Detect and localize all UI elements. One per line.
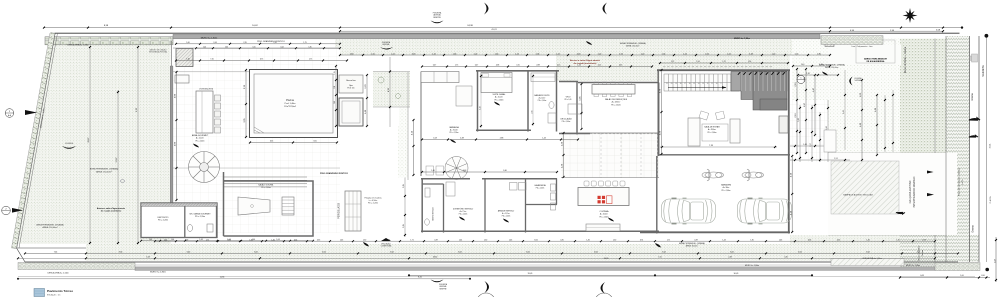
svg-text:3,74: 3,74 bbox=[386, 239, 389, 241]
boundary wall muro top bbox=[173, 34, 820, 38]
svg-text:4,35: 4,35 bbox=[317, 239, 320, 241]
bottom pebble band left bbox=[18, 263, 135, 270]
svg-text:A = 9,10m²: A = 9,10m² bbox=[450, 129, 459, 132]
vivo room east wall bbox=[576, 82, 578, 135]
bottom lawn band bbox=[86, 244, 900, 261]
patio paving around pool deck bbox=[173, 40, 335, 73]
svg-text:2,88: 2,88 bbox=[536, 65, 539, 67]
svg-text:COZINHA: COZINHA bbox=[600, 210, 610, 213]
svg-text:4,39: 4,39 bbox=[694, 239, 697, 241]
svg-text:1,43: 1,43 bbox=[843, 110, 845, 113]
svg-text:PISO GRANITADO RÚSTICO: PISO GRANITADO RÚSTICO bbox=[320, 172, 348, 175]
svg-text:6,56: 6,56 bbox=[534, 239, 537, 241]
service bathroom wall bbox=[443, 184, 445, 233]
svg-text:9,56: 9,56 bbox=[119, 252, 123, 254]
varanda chairs bbox=[426, 166, 434, 175]
svg-text:1,22: 1,22 bbox=[772, 53, 776, 55]
svg-text:WC / ÁREA GOURMET: WC / ÁREA GOURMET bbox=[189, 213, 211, 216]
svg-text:Acesso a caixa d'água através: Acesso a caixa d'água através bbox=[570, 59, 601, 62]
vertical dim right of pool bbox=[366, 75, 368, 126]
svg-text:1,56: 1,56 bbox=[705, 53, 709, 55]
living interior dim bbox=[660, 146, 777, 148]
svg-text:1,35: 1,35 bbox=[308, 46, 311, 48]
svg-text:2,88: 2,88 bbox=[500, 138, 504, 140]
pool bottom dim bbox=[250, 142, 337, 144]
svg-text:de escada marinheiro: de escada marinheiro bbox=[101, 211, 122, 213]
stair direction arrow bbox=[668, 87, 726, 89]
svg-text:17: 17 bbox=[684, 83, 686, 85]
motorcycle 1 bbox=[702, 169, 724, 181]
svg-text:ESCALA 1 : 45: ESCALA 1 : 45 bbox=[47, 294, 61, 297]
kitchen bottom counter bbox=[586, 224, 620, 231]
svg-text:1,75: 1,75 bbox=[309, 59, 312, 61]
svg-text:1,54: 1,54 bbox=[495, 53, 499, 55]
svg-text:PD = 2,40m: PD = 2,40m bbox=[502, 216, 511, 218]
front yard small dim rows bbox=[793, 65, 830, 67]
deck steps to garden bbox=[223, 176, 307, 178]
svg-text:9: 9 bbox=[721, 83, 722, 85]
living room top wall bbox=[657, 69, 790, 71]
service bathroom fixtures bbox=[425, 219, 430, 225]
svg-text:1,35: 1,35 bbox=[806, 73, 810, 75]
bedroom south wall bbox=[476, 129, 531, 131]
storage rooms outer walls bbox=[141, 203, 217, 238]
svg-text:4,43: 4,43 bbox=[577, 53, 581, 55]
svg-text:19: 19 bbox=[675, 83, 677, 85]
svg-text:ÁREA: 36,00m²: ÁREA: 36,00m² bbox=[686, 244, 699, 247]
svg-text:1,44: 1,44 bbox=[459, 239, 462, 241]
svg-text:0,15: 0,15 bbox=[598, 65, 601, 67]
svg-text:1,30: 1,30 bbox=[249, 239, 252, 241]
deck edge lines bbox=[173, 47, 340, 49]
svg-text:i=2%: i=2% bbox=[962, 179, 964, 184]
viewport circle bottom left bbox=[477, 293, 496, 297]
svg-text:3,18: 3,18 bbox=[749, 53, 753, 55]
svg-text:5,18: 5,18 bbox=[146, 256, 150, 258]
svg-text:1,46: 1,46 bbox=[866, 239, 869, 241]
svg-text:2,44: 2,44 bbox=[213, 42, 216, 44]
svg-text:SALÃO DE REFEIÇÕES: SALÃO DE REFEIÇÕES bbox=[605, 98, 628, 101]
gutter flow arrow upper bbox=[969, 118, 980, 120]
svg-text:1,30: 1,30 bbox=[613, 239, 616, 241]
outdoor counter churrasqueira bbox=[196, 91, 213, 133]
svg-text:MURO h= 1,80m: MURO h= 1,80m bbox=[745, 265, 760, 267]
svg-text:20: 20 bbox=[671, 83, 673, 85]
swimming pool waterline bbox=[254, 74, 333, 133]
svg-text:DEPÓSITO: DEPÓSITO bbox=[158, 216, 169, 219]
lavanderia wall bbox=[526, 204, 558, 206]
svg-text:1,44: 1,44 bbox=[577, 65, 580, 67]
svg-text:4,38: 4,38 bbox=[460, 138, 464, 140]
bathroom wc bbox=[549, 102, 554, 109]
svg-text:6,62: 6,62 bbox=[866, 252, 870, 254]
fireplace bbox=[779, 116, 788, 133]
svg-text:1,15: 1,15 bbox=[334, 71, 336, 74]
svg-text:0,15: 0,15 bbox=[516, 65, 519, 67]
svg-text:INTERTRAVADO 100/20cm: INTERTRAVADO 100/20cm bbox=[913, 177, 916, 208]
revision crescent bottom left bbox=[485, 281, 490, 293]
svg-text:PD = 2,60m: PD = 2,60m bbox=[722, 190, 732, 192]
bottom boundary line bbox=[17, 247, 87, 249]
svg-text:3,55: 3,55 bbox=[270, 141, 273, 143]
svg-text:1,22: 1,22 bbox=[391, 53, 395, 55]
svg-text:PD = 2,60m: PD = 2,60m bbox=[261, 187, 271, 189]
dim row walkway second bbox=[196, 47, 340, 49]
living sofa set bbox=[688, 118, 700, 146]
svg-text:LATERAL: LATERAL bbox=[382, 43, 389, 46]
svg-text:ABRIGO PARA MEDIDOR: ABRIGO PARA MEDIDOR bbox=[864, 58, 887, 61]
svg-text:Antena e cabo d'água através: Antena e cabo d'água através bbox=[97, 207, 126, 210]
slope hatch band along west boundary bbox=[12, 33, 56, 248]
svg-text:6,62: 6,62 bbox=[254, 252, 258, 254]
svg-text:1,22: 1,22 bbox=[727, 53, 731, 55]
svg-text:ÁREA: 150,00m²: ÁREA: 150,00m² bbox=[626, 44, 640, 47]
utility box on chevron bbox=[970, 56, 974, 60]
svg-text:2,85: 2,85 bbox=[403, 224, 405, 228]
leader arrow top strip bbox=[586, 41, 592, 45]
bedroom west wall bbox=[477, 71, 479, 132]
svg-text:6,62: 6,62 bbox=[662, 252, 666, 254]
svg-text:PD = 2,40: PD = 2,40 bbox=[565, 99, 572, 101]
svg-text:2,35: 2,35 bbox=[225, 46, 228, 48]
svg-text:CALÇADA EM PISO: CALÇADA EM PISO bbox=[909, 181, 912, 204]
svg-text:ÁREA PERMEÁVEL (GRAMA): ÁREA PERMEÁVEL (GRAMA) bbox=[679, 242, 705, 245]
staircase treads bbox=[664, 74, 731, 91]
top property boundary line bbox=[55, 32, 960, 34]
svg-text:31,87: 31,87 bbox=[116, 157, 118, 163]
svg-text:3,18: 3,18 bbox=[412, 53, 416, 55]
svg-text:6,62: 6,62 bbox=[322, 252, 326, 254]
staircase upper flight gray L-block bbox=[731, 72, 787, 92]
svg-text:PISO GRANITADO RÚSTICO: PISO GRANITADO RÚSTICO bbox=[257, 40, 285, 43]
red cooktop burners bbox=[598, 196, 606, 204]
overall top dimension line bbox=[44, 27, 962, 29]
deck tile texture bbox=[173, 48, 340, 233]
svg-text:A = 18,6m²: A = 18,6m² bbox=[612, 101, 621, 104]
svg-text:Lixo - Calçamento + Lixo: Lixo - Calçamento + Lixo bbox=[852, 45, 873, 48]
svg-text:1,75: 1,75 bbox=[303, 42, 306, 44]
svg-text:A = 38m²: A = 38m² bbox=[723, 186, 730, 189]
vertical dim garage bbox=[791, 156, 793, 232]
area de servico wall bbox=[484, 179, 486, 233]
pergola column planter hatched bbox=[176, 49, 193, 67]
terrace left edge bbox=[407, 72, 409, 180]
svg-text:1,05: 1,05 bbox=[252, 46, 255, 48]
svg-text:1,44: 1,44 bbox=[149, 239, 152, 241]
service dorm bed bbox=[446, 182, 455, 196]
vivo room south wall bbox=[559, 133, 590, 135]
svg-text:3,25: 3,25 bbox=[917, 252, 921, 254]
svg-text:4,39: 4,39 bbox=[185, 239, 188, 241]
svg-text:6,56: 6,56 bbox=[808, 239, 811, 241]
svg-text:7,44: 7,44 bbox=[54, 252, 58, 254]
roof projection symbol bottom bbox=[381, 238, 391, 241]
svg-text:ÁREA: 150,00m²: ÁREA: 150,00m² bbox=[96, 170, 112, 173]
svg-text:1,44: 1,44 bbox=[542, 138, 546, 140]
lawn patch in front of dining room bbox=[556, 55, 660, 81]
svg-text:1,64: 1,64 bbox=[280, 46, 283, 48]
svg-text:16,62: 16,62 bbox=[252, 25, 258, 27]
section flag arrow upper bbox=[25, 110, 37, 115]
leader arrow bottom band 2 bbox=[363, 242, 369, 247]
svg-text:CERCA VIVA h= 1,50m: CERCA VIVA h= 1,50m bbox=[862, 257, 882, 260]
leader arrow front yard bbox=[822, 72, 828, 76]
svg-text:MURO h= 1,80m: MURO h= 1,80m bbox=[734, 38, 750, 40]
service wing south wall bbox=[421, 230, 659, 232]
svg-text:18,62: 18,62 bbox=[433, 256, 438, 258]
lixo calcamento band top right bbox=[821, 36, 883, 45]
garage south wall bbox=[640, 231, 790, 233]
svg-text:1,54: 1,54 bbox=[662, 53, 666, 55]
svg-text:Prof: 5m: Prof: 5m bbox=[347, 87, 355, 90]
svg-text:BANHEIRO SUÍTE: BANHEIRO SUÍTE bbox=[534, 94, 550, 97]
svg-text:ÁREA GOURMET: ÁREA GOURMET bbox=[192, 134, 209, 137]
section marker circle lower bbox=[2, 206, 11, 215]
staircase transition diagonal bbox=[731, 72, 739, 92]
counter stools bbox=[215, 95, 221, 133]
pergolado dimension vertical bbox=[404, 174, 406, 237]
svg-text:1,75: 1,75 bbox=[455, 65, 458, 67]
svg-text:4,39: 4,39 bbox=[434, 239, 437, 241]
svg-text:0,50: 0,50 bbox=[981, 275, 985, 277]
banco fixo bench bbox=[339, 75, 363, 93]
svg-text:ÁREA PERMEÁVEL (GRAMA): ÁREA PERMEÁVEL (GRAMA) bbox=[90, 168, 119, 171]
dim row walkway upper bbox=[176, 43, 340, 45]
svg-text:DORMITÓRIO SERVIÇO: DORMITÓRIO SERVIÇO bbox=[453, 208, 474, 211]
gutter flow arrow lower bbox=[969, 135, 978, 137]
svg-text:ÁREA PERMEÁVEL (GRAMA): ÁREA PERMEÁVEL (GRAMA) bbox=[36, 224, 64, 227]
bedroom bed bbox=[481, 73, 512, 93]
storage rooms top wall hatch bbox=[141, 203, 217, 206]
living room east wall bbox=[788, 70, 790, 233]
vertical dim living left bbox=[661, 70, 663, 154]
dining table with chairs bbox=[592, 85, 635, 95]
svg-text:1,22: 1,22 bbox=[722, 61, 725, 63]
svg-text:1,40: 1,40 bbox=[431, 170, 435, 172]
svg-text:1,22: 1,22 bbox=[474, 53, 478, 55]
svg-text:PD = 2,20m: PD = 2,20m bbox=[368, 203, 378, 205]
car 2 in garage bbox=[738, 198, 792, 225]
svg-text:3,96: 3,96 bbox=[531, 110, 533, 113]
svg-text:1,22: 1,22 bbox=[598, 53, 602, 55]
svg-text:6,75: 6,75 bbox=[260, 59, 263, 61]
svg-text:13,39: 13,39 bbox=[604, 258, 609, 260]
svg-text:MURO h= 1,80m: MURO h= 1,80m bbox=[201, 37, 218, 39]
roof projection dashed line courtyard bbox=[657, 133, 659, 178]
svg-text:6,62: 6,62 bbox=[594, 252, 598, 254]
pedestrian arrow paver band upper bbox=[927, 171, 934, 174]
svg-text:1,46: 1,46 bbox=[271, 239, 274, 241]
svg-text:1,50: 1,50 bbox=[658, 256, 661, 258]
gourmet room left wall stubs bbox=[216, 206, 218, 238]
svg-text:11: 11 bbox=[711, 83, 713, 85]
pergolado deck slats bbox=[345, 191, 361, 231]
dining room top wall bbox=[578, 82, 659, 84]
vertical dim left of pool bbox=[245, 70, 247, 137]
vehicle access ramp hatch bbox=[831, 161, 899, 214]
svg-text:Grama: Grama bbox=[972, 225, 975, 233]
svg-text:1,22: 1,22 bbox=[683, 53, 687, 55]
paver chevron driveway patch bbox=[899, 153, 946, 235]
svg-text:PD = 2,40m: PD = 2,40m bbox=[538, 100, 547, 102]
staircase lower landing dark bbox=[760, 99, 787, 110]
bottom thin line above muro bbox=[90, 264, 935, 266]
svg-text:1,55: 1,55 bbox=[371, 53, 375, 55]
svg-text:8,41: 8,41 bbox=[418, 277, 422, 279]
svg-text:GARAGEM: GARAGEM bbox=[721, 184, 732, 187]
garden vertical dimension line 1 bbox=[89, 47, 91, 243]
garden strip lower extension bbox=[398, 127, 408, 178]
svg-text:2,46: 2,46 bbox=[826, 126, 828, 130]
svg-text:1,64: 1,64 bbox=[171, 239, 174, 241]
svg-text:Piscina: Piscina bbox=[286, 99, 294, 102]
svg-text:3,74: 3,74 bbox=[227, 239, 230, 241]
abrigo enclosure outline bbox=[856, 40, 895, 63]
service wing top wall right segment bbox=[482, 178, 557, 180]
paver chevron vertical strip bbox=[946, 36, 970, 262]
svg-text:A = 28,4m²: A = 28,4m² bbox=[708, 128, 717, 131]
svg-text:21: 21 bbox=[666, 83, 668, 85]
svg-text:6,56: 6,56 bbox=[294, 239, 297, 241]
svg-text:1,44: 1,44 bbox=[164, 239, 167, 241]
svg-text:6,62: 6,62 bbox=[187, 252, 191, 254]
svg-text:ÁREA DE SERVIÇO: ÁREA DE SERVIÇO bbox=[498, 210, 515, 213]
entry court dim verticals bbox=[799, 105, 801, 162]
small crescent note front yard bbox=[849, 77, 852, 86]
despensa wall bbox=[525, 179, 527, 233]
svg-text:1,46: 1,46 bbox=[586, 239, 589, 241]
svg-text:Banco fixo: Banco fixo bbox=[346, 80, 356, 82]
svg-text:PLANTA: PLANTA bbox=[989, 196, 992, 204]
varanda vertical dims bbox=[413, 120, 415, 175]
svg-text:PD = 2,20m: PD = 2,20m bbox=[158, 220, 168, 222]
svg-text:41,74: 41,74 bbox=[491, 29, 497, 31]
vertical dim deck left bbox=[176, 72, 178, 200]
svg-text:LAVANDERIA: LAVANDERIA bbox=[534, 184, 546, 187]
svg-text:12: 12 bbox=[707, 83, 709, 85]
svg-text:ÁREA PERMEÁVEL (GRAMA): ÁREA PERMEÁVEL (GRAMA) bbox=[620, 42, 646, 45]
svg-text:1,08: 1,08 bbox=[433, 138, 437, 140]
svg-text:PD = 2,60m: PD = 2,60m bbox=[611, 104, 621, 106]
svg-text:15: 15 bbox=[693, 83, 695, 85]
svg-text:PD = 2,40m: PD = 2,40m bbox=[562, 121, 571, 123]
svg-text:1,56: 1,56 bbox=[536, 53, 540, 55]
svg-text:A = 15,2m²: A = 15,2m² bbox=[495, 96, 504, 99]
svg-text:1,46: 1,46 bbox=[340, 239, 343, 241]
svg-text:1,30: 1,30 bbox=[750, 239, 753, 241]
entry court tile texture bbox=[790, 100, 828, 162]
svg-text:4,43: 4,43 bbox=[619, 65, 622, 67]
svg-text:11,64: 11,64 bbox=[220, 277, 225, 279]
svg-text:1,44: 1,44 bbox=[199, 239, 202, 241]
dim row gourmet bottom bbox=[141, 240, 313, 242]
gourmet shelf ladder bbox=[282, 197, 294, 215]
svg-text:3,74: 3,74 bbox=[640, 239, 643, 241]
varanda leader arrow bbox=[450, 139, 456, 143]
wall between deposito and wc bbox=[184, 206, 186, 238]
svg-text:1,22: 1,22 bbox=[515, 53, 519, 55]
section flag arrow lower bbox=[12, 208, 23, 213]
lawn patch in front of living room bbox=[660, 55, 790, 69]
garden vertical dimension line 1b bbox=[117, 90, 119, 243]
service wing top wall left segment bbox=[421, 178, 470, 180]
garage west wall bbox=[656, 156, 658, 234]
svg-text:1,56: 1,56 bbox=[748, 61, 751, 63]
svg-text:CERCA VIVA h= 1,50m: CERCA VIVA h= 1,50m bbox=[47, 272, 69, 275]
top right corner dot bbox=[985, 34, 989, 38]
svg-text:1,10: 1,10 bbox=[819, 64, 823, 66]
front yard vertical dimension c bbox=[814, 75, 816, 135]
bottom tree note figueira bbox=[431, 280, 444, 283]
vivo dresser bbox=[568, 104, 582, 114]
svg-text:PD = 2,60m: PD = 2,60m bbox=[708, 132, 718, 134]
svg-text:3,40: 3,40 bbox=[503, 170, 507, 172]
front yard vertical dimension b bbox=[805, 69, 807, 153]
svg-text:0,47: 0,47 bbox=[475, 65, 478, 67]
svg-text:MURO h= 1,80m: MURO h= 1,80m bbox=[906, 265, 921, 267]
kitchen island bbox=[578, 188, 629, 206]
driveway arrow in sidewalk bbox=[896, 212, 905, 214]
svg-text:1,22: 1,22 bbox=[556, 53, 560, 55]
svg-text:DE ÁGUA/ENERGIA: DE ÁGUA/ENERGIA bbox=[867, 60, 885, 63]
svg-text:27m³/37,8m²: 27m³/37,8m² bbox=[284, 105, 296, 108]
second top dimension line bbox=[340, 30, 943, 32]
front yard vertical dimension a bbox=[796, 69, 798, 153]
vertical dim center court bbox=[563, 133, 565, 177]
walk path outline front bbox=[824, 130, 836, 152]
bottom dimension row 1 bbox=[155, 240, 935, 242]
svg-text:1,30: 1,30 bbox=[484, 239, 487, 241]
svg-text:VARANDA: VARANDA bbox=[449, 126, 459, 129]
svg-text:4,38: 4,38 bbox=[479, 106, 481, 109]
suite leader arrow bbox=[494, 102, 500, 106]
dim row pool top bbox=[176, 60, 347, 62]
svg-text:PD = 2,40m: PD = 2,40m bbox=[196, 140, 206, 142]
svg-text:1,30: 1,30 bbox=[896, 239, 899, 241]
lavanderia machines on east wall bbox=[551, 184, 556, 191]
svg-text:6,62: 6,62 bbox=[798, 252, 802, 254]
bottom right corner pebble band bbox=[935, 263, 980, 271]
svg-text:6,62: 6,62 bbox=[526, 252, 530, 254]
bottom boundary wall muro band bbox=[135, 267, 935, 271]
svg-text:2,85: 2,85 bbox=[403, 184, 405, 188]
svg-text:Recuo do Dafne + Grama: Recuo do Dafne + Grama bbox=[904, 46, 907, 73]
svg-text:1,45: 1,45 bbox=[334, 101, 336, 104]
wc fixtures bbox=[187, 225, 192, 232]
svg-text:1,80: 1,80 bbox=[350, 53, 354, 55]
svg-text:1,40: 1,40 bbox=[186, 59, 189, 61]
viewport circle bottom right bbox=[595, 293, 614, 297]
svg-text:PD = 2,20m: PD = 2,20m bbox=[450, 132, 460, 134]
cozinha leader arrow bbox=[608, 218, 614, 222]
roof projection dashed line living bbox=[663, 66, 773, 68]
living armchairs bbox=[699, 111, 709, 120]
swimming pool coping bbox=[250, 70, 338, 138]
svg-text:PERGOLADO: PERGOLADO bbox=[338, 203, 341, 219]
gourmet west wall bbox=[223, 172, 225, 236]
driveway crossing calcada bbox=[828, 153, 957, 235]
front yard lawn lower right bbox=[790, 235, 900, 261]
revision crescent bottom right bbox=[601, 282, 606, 294]
small gray utility box right band bbox=[972, 54, 978, 62]
pedestrian arrow paver band lower bbox=[927, 193, 934, 196]
shrub circle in strip bbox=[378, 77, 384, 83]
svg-text:1,20: 1,20 bbox=[203, 46, 206, 48]
svg-text:SEMPRE: SEMPRE bbox=[433, 17, 441, 19]
svg-text:1,71: 1,71 bbox=[206, 239, 209, 241]
svg-text:1,44: 1,44 bbox=[722, 239, 725, 241]
garden vertical dimension line 2 bbox=[137, 47, 139, 243]
